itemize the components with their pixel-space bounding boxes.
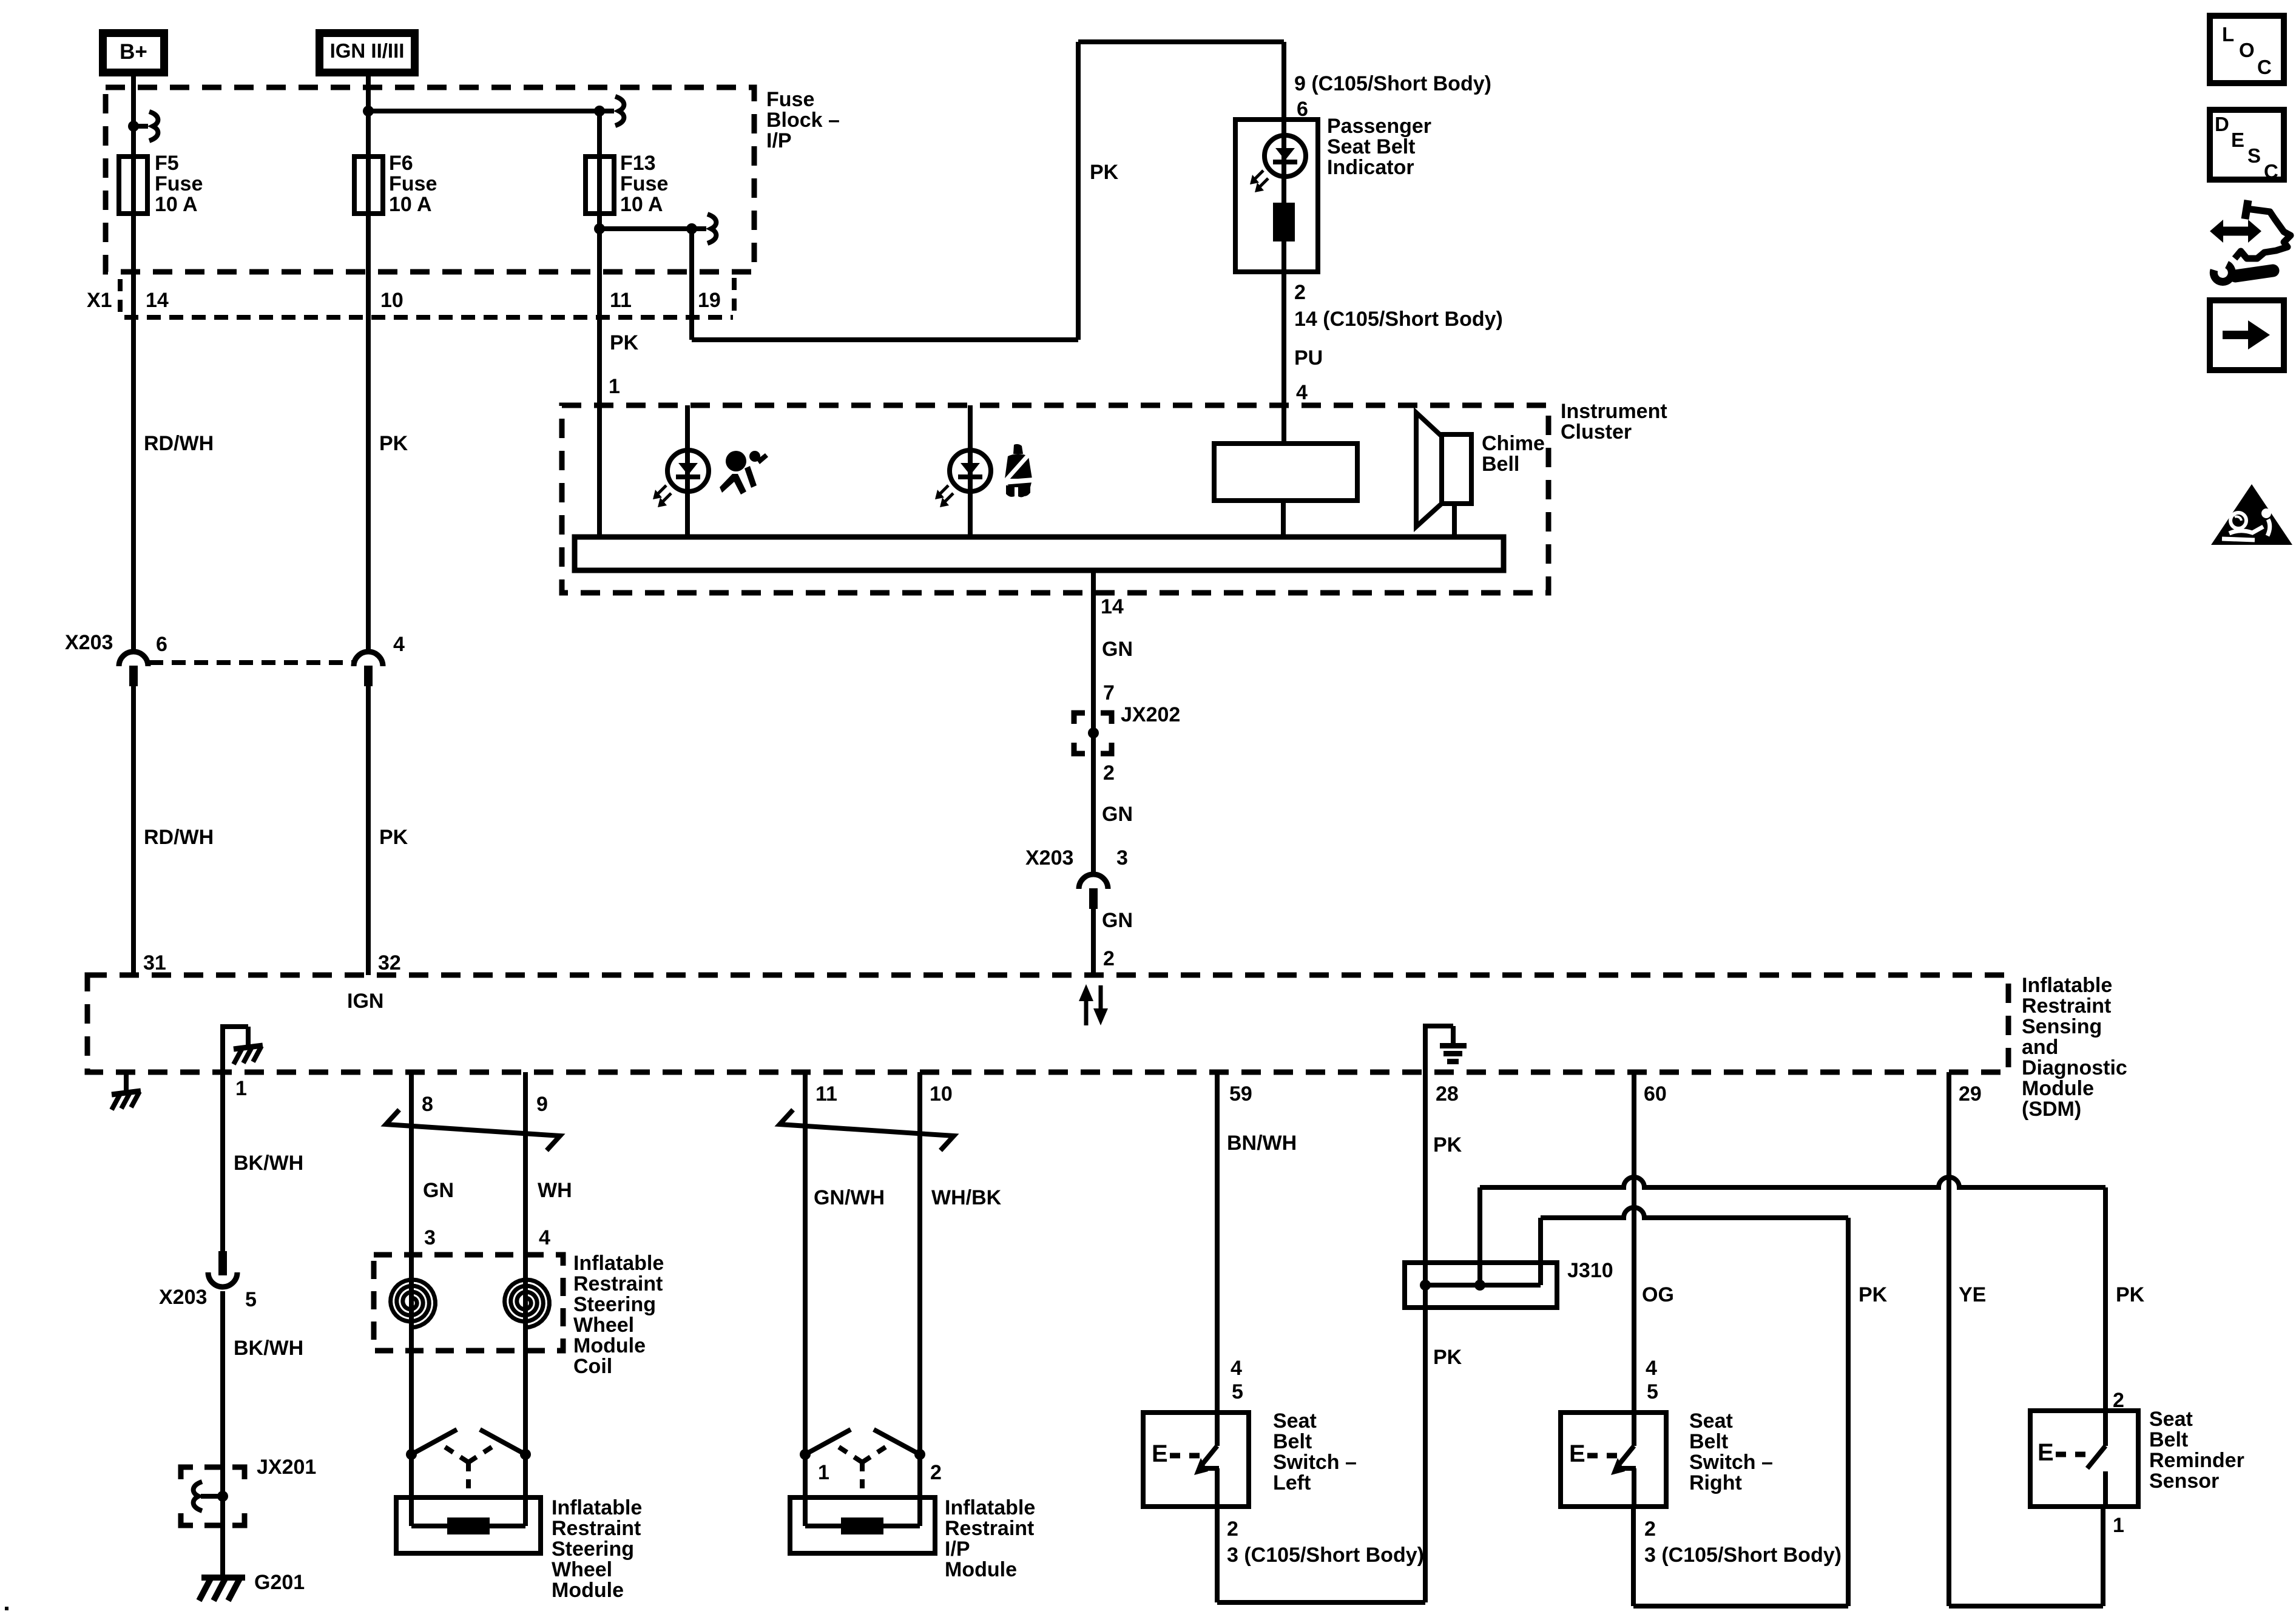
wire stub to clip [599, 109, 614, 113]
svg-text:F6: F6 [389, 152, 413, 175]
svg-text:and: and [2022, 1036, 2058, 1059]
svg-text:IGN: IGN [347, 990, 383, 1013]
splice pack J310 box [1405, 1263, 1557, 1308]
SDM dashed box (Inflatable Restraint Sensing and Diagnostic Module) [87, 975, 2008, 1072]
svg-text:E: E [2231, 129, 2244, 151]
svg-text:WH: WH [538, 1179, 572, 1202]
svg-text:Belt: Belt [1273, 1430, 1312, 1453]
svg-text:Reminder: Reminder [2149, 1449, 2244, 1472]
svg-text:J310: J310 [1567, 1259, 1613, 1282]
twisted pair slash 11/10 [780, 1110, 954, 1150]
svg-text:C: C [2257, 56, 2272, 78]
svg-text:Restraint: Restraint [2022, 994, 2111, 1018]
svg-text:Steering: Steering [552, 1538, 634, 1561]
wire PK down to sensor pin 2 [2103, 1187, 2108, 1411]
icon seat belt person [1005, 444, 1032, 498]
junction JX202 dot [1088, 727, 1099, 738]
svg-text:Seat: Seat [1273, 1409, 1317, 1433]
wrench [2235, 271, 2273, 276]
svg-text:1: 1 [609, 375, 620, 398]
wire bottom link left [1217, 1600, 1425, 1605]
LED seat belt indicator [950, 450, 991, 491]
svg-text:Bell: Bell [1482, 453, 1519, 476]
coil spiral right [505, 1280, 550, 1328]
svg-text:Switch –: Switch – [1273, 1451, 1357, 1474]
steering wheel squib branch wires 8/9 [409, 1072, 414, 1497]
Seat Belt Reminder Sensor box [2030, 1411, 2138, 1507]
resistor in indicator [1273, 203, 1295, 241]
wire IGN to fuse F6 and pin 32 [366, 76, 371, 651]
svg-text:19: 19 [698, 289, 721, 312]
wire through indicator [1281, 120, 1286, 272]
svg-text:5: 5 [245, 1288, 257, 1311]
svg-text:PK: PK [1433, 1346, 1462, 1369]
connector X203 pin 6 [119, 652, 148, 666]
junction F6 top [363, 106, 374, 116]
svg-text:PK: PK [379, 826, 408, 849]
svg-text:Module: Module [945, 1558, 1017, 1581]
svg-text:11: 11 [815, 1082, 837, 1106]
svg-text:OG: OG [1642, 1283, 1674, 1306]
fuse F6 [354, 157, 383, 214]
svg-text:28: 28 [1436, 1082, 1459, 1106]
wire below switch right [1631, 1507, 1636, 1606]
Passenger Seat Belt Indicator box [1235, 120, 1318, 272]
wire stub to clip [692, 226, 706, 231]
svg-text:RD/WH: RD/WH [144, 826, 214, 849]
connector X1 bracket dashes [118, 279, 123, 314]
svg-text:4: 4 [1296, 381, 1308, 404]
svg-text:Fuse: Fuse [620, 172, 668, 195]
svg-text:3 (C105/Short Body): 3 (C105/Short Body) [1644, 1544, 1842, 1567]
svg-text:Seat Belt: Seat Belt [1327, 135, 1416, 158]
svg-text:B+: B+ [120, 40, 147, 64]
svg-text:10 A: 10 A [155, 193, 198, 216]
wire chime to bus bar [1452, 504, 1457, 537]
wire GN from cluster [1091, 570, 1096, 874]
Seat Belt Switch - Right box [1561, 1413, 1666, 1507]
svg-text:31: 31 [143, 951, 166, 974]
wire bottom link sensor [1949, 1604, 2103, 1609]
svg-text:X203: X203 [159, 1286, 207, 1309]
svg-text:PK: PK [1090, 161, 1119, 184]
Seat Belt Switch - Left box [1143, 1413, 1249, 1507]
svg-text:2: 2 [1644, 1517, 1656, 1541]
svg-text:BK/WH: BK/WH [234, 1337, 303, 1360]
svg-text:Sensor: Sensor [2149, 1470, 2219, 1493]
svg-text:Inflatable: Inflatable [2022, 974, 2112, 997]
svg-text:Restraint: Restraint [552, 1517, 641, 1540]
icon DESC box [2210, 110, 2284, 180]
svg-text:PK: PK [379, 432, 408, 455]
wire GN to SDM pin 2 [1091, 909, 1096, 975]
cluster interface module box [1214, 444, 1357, 501]
junction J310 middle dot [1474, 1280, 1485, 1291]
svg-text:3: 3 [1116, 846, 1128, 869]
chassis ground below SDM left edge [124, 1072, 129, 1090]
svg-text:Block –: Block – [766, 109, 840, 132]
svg-text:Belt: Belt [2149, 1428, 2188, 1451]
wire seat belt indicator LED [968, 405, 973, 537]
wire B+ to fuse F5 and pin 31 [131, 76, 136, 651]
fuse F13 [586, 157, 614, 214]
wire pin 1 into cluster [597, 405, 602, 537]
ground G201 [201, 1575, 245, 1581]
svg-text:GN: GN [1102, 803, 1133, 826]
cluster bus bar [575, 537, 1504, 570]
sensor lower contact [2103, 1471, 2108, 1507]
icon next-step arrow box [2210, 300, 2284, 370]
svg-text:PK: PK [1433, 1133, 1462, 1156]
svg-text:X1: X1 [87, 289, 112, 312]
wire PK pin 28 [1423, 1072, 1428, 1602]
chime bell driver [1442, 434, 1471, 504]
earth ground bar 3 [1447, 1059, 1459, 1064]
svg-text:1: 1 [818, 1461, 829, 1484]
svg-text:X203: X203 [1025, 846, 1073, 869]
svg-text:Coil: Coil [573, 1355, 612, 1378]
svg-text:(SDM): (SDM) [2022, 1098, 2081, 1121]
seat belt reminder sensor branch pin 29 [1947, 1072, 1951, 1606]
wire PU to cluster [1281, 272, 1286, 444]
svg-text:Wheel: Wheel [573, 1314, 634, 1337]
svg-text:7: 7 [1103, 681, 1115, 704]
svg-text:GN: GN [1102, 909, 1133, 932]
left seat belt switch branch pin 59 [1215, 1072, 1220, 1413]
svg-text:60: 60 [1644, 1082, 1667, 1106]
wire pin 19 down [689, 229, 694, 340]
svg-text:32: 32 [378, 951, 401, 974]
svg-text:2: 2 [1227, 1517, 1238, 1541]
svg-text:Cluster: Cluster [1561, 420, 1632, 444]
svg-text:2: 2 [1294, 281, 1306, 304]
svg-text:Switch –: Switch – [1689, 1451, 1773, 1474]
svg-text:C: C [2264, 160, 2278, 183]
svg-text:Module: Module [573, 1334, 646, 1357]
wire into indicator [1281, 42, 1286, 120]
svg-text:Fuse: Fuse [389, 172, 437, 195]
squib switch I/P module [800, 1449, 811, 1460]
svg-text:E: E [2038, 1439, 2054, 1466]
svg-text:GN: GN [1102, 638, 1133, 661]
earth ground at SDM pin 28 [1423, 1026, 1428, 1072]
junction B+ clip tap [128, 121, 139, 132]
svg-text:GN: GN [423, 1179, 454, 1202]
svg-text:9 (C105/Short Body): 9 (C105/Short Body) [1294, 72, 1491, 95]
svg-text:2: 2 [930, 1461, 942, 1484]
svg-text:Right: Right [1689, 1471, 1742, 1494]
wire PK right riser [1846, 1218, 1851, 1606]
svg-text:Chime: Chime [1482, 432, 1545, 455]
wire RD/WH to SDM pin 31 [131, 686, 136, 975]
svg-text:Left: Left [1273, 1471, 1311, 1494]
wire J310 internal bus [1425, 1283, 1541, 1288]
Inflatable Restraint Steering Wheel Module box [396, 1497, 541, 1553]
wire PK to switch right (with hop) [1541, 1207, 1848, 1218]
svg-text:PK: PK [2116, 1283, 2145, 1306]
earth ground bar 2 [1443, 1051, 1462, 1056]
Inflatable Restraint Steering Wheel Module Coil dashed box [374, 1255, 563, 1351]
svg-text:29: 29 [1959, 1082, 1982, 1106]
LED airbag indicator [667, 450, 709, 491]
svg-text:59: 59 [1229, 1082, 1252, 1106]
svg-text:Steering: Steering [573, 1293, 656, 1316]
LED passenger seat belt indicator [1264, 135, 1306, 177]
wire J310 riser 1 [1477, 1187, 1482, 1285]
svg-text:Restraint: Restraint [573, 1272, 663, 1295]
svg-text:O: O [2239, 39, 2255, 61]
twisted pair slash 8/9 [386, 1110, 560, 1150]
svg-text:Fuse: Fuse [155, 172, 203, 195]
wire PK riser [1076, 42, 1081, 340]
clip inside JX201 [194, 1482, 202, 1511]
svg-text:Seat: Seat [1689, 1409, 1733, 1433]
chime bell speaker horn [1416, 413, 1442, 527]
Instrument Cluster dashed box [562, 405, 1548, 593]
wire PK to SDM pin 32 [366, 686, 371, 975]
svg-text:Passenger: Passenger [1327, 115, 1431, 138]
svg-text:Restraint: Restraint [945, 1517, 1034, 1540]
svg-text:14 (C105/Short Body): 14 (C105/Short Body) [1294, 308, 1503, 331]
svg-text:PK: PK [1859, 1283, 1888, 1306]
svg-text:Inflatable: Inflatable [573, 1252, 664, 1275]
junction pin 19 tap [686, 223, 697, 234]
icon LOC box [2210, 16, 2284, 83]
wire BK/WH pin 1 [220, 1072, 225, 1251]
svg-text:X203: X203 [65, 631, 113, 654]
svg-text:4: 4 [1646, 1357, 1657, 1380]
svg-text:14: 14 [1101, 595, 1124, 618]
junction connector JX202 corner bracket [1074, 713, 1085, 724]
svg-text:Inflatable: Inflatable [945, 1496, 1035, 1519]
ground jog inside SDM (IGN ground) [220, 1027, 225, 1072]
connector X203 pin 4 [354, 652, 383, 666]
icon airbag warning person [720, 451, 768, 495]
connector X203 pin 3 [1079, 874, 1108, 889]
connector X203 pin 5 [218, 1251, 227, 1275]
icon airbag caution triangle [2211, 484, 2292, 545]
svg-text:9: 9 [536, 1093, 548, 1116]
wire module to bus bar [1281, 501, 1286, 537]
svg-text:6: 6 [156, 633, 167, 656]
svg-text:F5: F5 [155, 152, 179, 175]
Inflatable Restraint I/P Module box [790, 1497, 935, 1553]
svg-text:L: L [2222, 23, 2234, 46]
svg-text:RD/WH: RD/WH [144, 432, 214, 455]
svg-text:10 A: 10 A [620, 193, 663, 216]
wire pin 19 horizontal to PK riser [692, 337, 1078, 342]
svg-text:11: 11 [610, 289, 632, 312]
junction F13 top [594, 106, 605, 116]
svg-text:Belt: Belt [1689, 1430, 1728, 1453]
I/P squib branch wires 11/10 [803, 1072, 808, 1497]
clip at B+ tap [149, 112, 158, 141]
chassis ground inside SDM [234, 1045, 263, 1049]
svg-text:JX202: JX202 [1121, 703, 1180, 726]
connector X1 dashed line [124, 315, 733, 320]
page period mark [5, 1607, 8, 1610]
svg-text:I/P: I/P [945, 1538, 970, 1561]
svg-text:I/P: I/P [766, 129, 792, 152]
IGN II/III power feed box [316, 29, 419, 76]
wire F13 to pin 19 tap [599, 226, 692, 231]
svg-text:8: 8 [422, 1093, 433, 1116]
svg-text:Fuse: Fuse [766, 88, 814, 111]
svg-text:5: 5 [1647, 1380, 1658, 1403]
svg-text:BN/WH: BN/WH [1227, 1132, 1297, 1155]
svg-text:1: 1 [235, 1077, 247, 1100]
right seat belt switch branch pin 60 [1632, 1072, 1636, 1413]
svg-text:2: 2 [1103, 761, 1115, 785]
earth ground bar 1 [1440, 1043, 1467, 1048]
svg-text:Diagnostic: Diagnostic [2022, 1056, 2127, 1079]
svg-text:Seat: Seat [2149, 1408, 2193, 1431]
junction JX201 dot [217, 1491, 228, 1502]
wire stub to clip [133, 124, 148, 129]
svg-text:S: S [2247, 144, 2261, 167]
svg-text:4: 4 [393, 633, 405, 656]
svg-text:4: 4 [539, 1226, 550, 1249]
svg-text:PK: PK [610, 331, 639, 354]
svg-text:3: 3 [424, 1226, 436, 1249]
svg-text:E: E [1569, 1440, 1585, 1467]
Fuse Block - I/P dashed box [106, 87, 754, 272]
svg-text:Sensing: Sensing [2022, 1015, 2102, 1038]
svg-text:Wheel: Wheel [552, 1558, 612, 1581]
junction connector JX201 dashed square [181, 1467, 193, 1479]
wire F6 to F13 top link [368, 109, 599, 113]
svg-text:YE: YE [1959, 1283, 1986, 1306]
svg-text:WH/BK: WH/BK [931, 1186, 1002, 1209]
wire bottom link right switch [1633, 1604, 1848, 1609]
svg-text:F13: F13 [620, 152, 656, 175]
junction F13 bottom [594, 223, 605, 234]
svg-text:Module: Module [2022, 1077, 2094, 1100]
svg-text:4: 4 [1231, 1357, 1242, 1380]
svg-text:14: 14 [146, 289, 169, 312]
svg-text:E: E [1152, 1440, 1168, 1467]
svg-text:10: 10 [930, 1082, 953, 1106]
svg-text:BK/WH: BK/WH [234, 1152, 303, 1175]
svg-text:PU: PU [1294, 346, 1323, 370]
wire BK/WH to G201 [220, 1291, 225, 1578]
svg-text:IGN II/III: IGN II/III [330, 39, 405, 62]
wire below sensor [2101, 1507, 2105, 1606]
wire inside sensor [2103, 1411, 2108, 1446]
svg-text:Indicator: Indicator [1327, 156, 1414, 179]
wire airbag indicator LED [685, 405, 690, 537]
wire below switch left [1215, 1507, 1220, 1602]
svg-text:GN/WH: GN/WH [814, 1186, 885, 1209]
svg-text:Inflatable: Inflatable [552, 1496, 642, 1519]
svg-text:5: 5 [1232, 1380, 1243, 1403]
wire PK to reminder sensor (with hops) [1480, 1177, 2105, 1187]
junction J310 left dot [1420, 1280, 1431, 1291]
white seat-belt sash stripes over icon [1002, 450, 1033, 484]
fuse F5 [119, 157, 147, 214]
wire F13 vertical [597, 111, 602, 405]
svg-text:1: 1 [2113, 1514, 2124, 1537]
connector X203 dashed link line [149, 660, 352, 665]
wire JX201 inner link [201, 1494, 223, 1499]
svg-text:G201: G201 [254, 1571, 305, 1594]
svg-text:3 (C105/Short Body): 3 (C105/Short Body) [1227, 1544, 1424, 1567]
clip at F13 top tap [615, 96, 624, 126]
wire J310 riser 2 [1538, 1218, 1543, 1285]
B+ power feed box [99, 29, 168, 76]
svg-text:10: 10 [380, 289, 403, 312]
coil spiral left [391, 1280, 436, 1328]
svg-text:Module: Module [552, 1579, 624, 1602]
squib switch steering wheel module [406, 1449, 417, 1460]
icon service/repair (arrow + wrench) [2235, 200, 2291, 258]
wire top link to indicator [1078, 39, 1284, 44]
svg-text:JX201: JX201 [257, 1456, 316, 1479]
svg-text:2: 2 [1103, 947, 1115, 970]
clip at pin 19 tap [707, 214, 716, 243]
serial data arrows at SDM pin 2 [1084, 999, 1089, 1025]
svg-text:D: D [2215, 113, 2229, 135]
svg-text:Instrument: Instrument [1561, 400, 1667, 423]
svg-text:10 A: 10 A [389, 193, 432, 216]
chassis ground below SDM [112, 1091, 141, 1095]
